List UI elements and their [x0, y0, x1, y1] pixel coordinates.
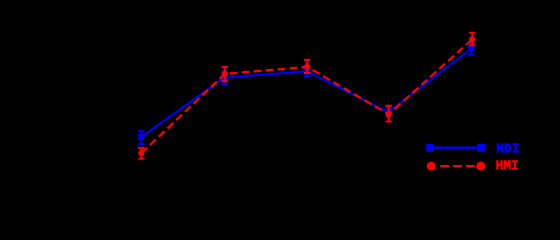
red dashed data line (HMI) — [141, 39, 472, 153]
blue data line (MDI) — [141, 49, 471, 137]
svg-text:HMI: HMI — [496, 159, 519, 175]
red circle markers (HMI) — [138, 36, 475, 156]
blue square markers (MDI) — [138, 46, 474, 140]
red error bars (HMI) — [138, 33, 475, 159]
legend red dashed line — [440, 165, 475, 167]
legend red circles — [427, 162, 436, 171]
blue error bars (MDI) — [138, 43, 474, 144]
legend blue squares — [426, 144, 434, 152]
svg-text:MDI: MDI — [496, 142, 519, 158]
legend blue line — [430, 146, 481, 148]
